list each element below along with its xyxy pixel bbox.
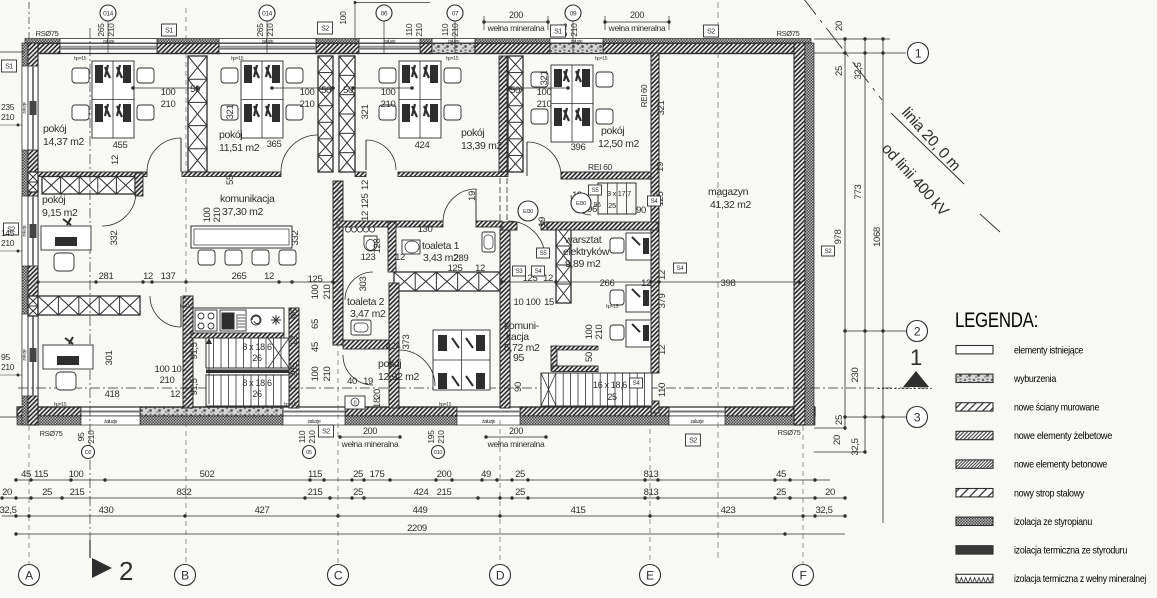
svg-text:25: 25 [607,392,617,402]
door: pokoj 12,50 [527,142,561,176]
dimension chain row 4 [16,533,845,535]
svg-text:773: 773 [853,185,864,200]
furniture: desk cluster pokoj 14,37 [72,61,154,138]
svg-text:pokój: pokój [461,127,484,139]
wall: warsztat west pillar [556,227,571,303]
svg-text:45: 45 [776,469,786,480]
svg-text:19: 19 [467,191,478,201]
furniture: desk pokoj 9,15 [41,218,91,271]
svg-text:215: 215 [70,487,85,498]
svg-text:303: 303 [358,277,369,292]
svg-text:żaluzje: żaluzje [690,419,704,425]
svg-text:D2: D2 [85,450,92,456]
svg-text:żaluzje: żaluzje [482,419,496,425]
svg-text:żaluzje: żaluzje [22,224,27,236]
door: pokoj 11,51 [281,135,318,172]
furniture: desk pokoj 12,37 [43,337,93,390]
legend row: nowe elementy żelbetowe [956,431,993,439]
svg-text:hp=15: hp=15 [54,402,67,408]
svg-text:25: 25 [515,469,525,480]
svg-text:449: 449 [413,505,428,516]
svg-text:321: 321 [656,101,667,116]
fixture: WC toaleta zone [364,236,377,251]
svg-text:25: 25 [42,487,52,498]
svg-text:210: 210 [322,285,333,300]
svg-text:418: 418 [105,389,120,400]
axis line A lower [28,426,30,564]
svg-text:18: 18 [372,398,383,408]
svg-text:210: 210 [86,430,96,444]
svg-text:210: 210 [1,112,15,122]
wall: corridor north thin wall pokoj 13,39 [355,172,366,177]
wall: stairs east wall [289,308,299,408]
svg-text:nowe elementy betonowe: nowe elementy betonowe [1014,459,1107,471]
svg-text:05: 05 [306,450,312,456]
wall: toilet/pokoj 12,92 dividing wall [394,272,500,291]
svg-text:20: 20 [372,389,383,399]
fixture: cabinet below toaleta2 [345,396,365,409]
fixture: washer symbol [251,315,261,325]
wall: double pillar east of pokoj 11,51 [318,56,333,172]
wall: corridor north thin wall left [38,172,147,177]
stairs: left staircase 8x18,6 flight 2 [206,375,289,406]
svg-text:210: 210 [106,23,116,37]
wall: bottom facade masonry [17,407,81,416]
svg-text:91,5: 91,5 [189,342,200,359]
svg-text:200: 200 [363,426,377,436]
svg-text:210: 210 [160,375,175,386]
svg-text:37,30 m2: 37,30 m2 [222,206,263,218]
svg-text:S4: S4 [535,269,543,275]
room labels [42,123,751,383]
door: to toaleta 2 [345,272,373,300]
svg-text:wełna mineralna: wełna mineralna [608,23,666,33]
svg-text:32,5: 32,5 [850,438,861,455]
svg-text:45: 45 [21,469,31,480]
svg-text:95: 95 [513,352,524,364]
svg-text:hp=15: hp=15 [439,402,452,408]
svg-text:25: 25 [834,66,845,76]
svg-text:50: 50 [190,84,200,95]
svg-text:125: 125 [308,274,323,285]
svg-text:145: 145 [1,228,15,238]
svg-text:8 x 18,6: 8 x 18,6 [242,378,272,388]
svg-text:żaluzje: żaluzje [104,419,118,425]
svg-text:9,15 m2: 9,15 m2 [42,207,78,219]
wall: small stair enclosure 3x17,7 [598,183,636,214]
svg-text:3 x 17,7: 3 x 17,7 [607,189,631,198]
svg-text:40: 40 [347,376,357,387]
svg-text:100: 100 [310,367,321,382]
dimension chain row 2 [2,497,845,499]
svg-text:żaluzje: żaluzje [307,419,321,425]
svg-text:210: 210 [307,430,317,444]
legend row: izolacja termiczna z wełny mineralnej [956,574,993,582]
wall: left facade [22,43,28,425]
svg-text:96: 96 [593,202,601,209]
legend row: wyburzenia [956,374,993,382]
section line 1-1 horizontal [18,387,930,389]
axis line E lower [649,420,651,564]
wall: pillar between pokoj 13,39 and 12,50 [499,56,507,172]
svg-text:95: 95 [1,352,10,362]
wall: toilet block west wall [333,181,343,345]
svg-text:REI 60: REI 60 [588,162,613,172]
svg-text:wyburzenia: wyburzenia [1013,373,1056,385]
svg-text:430: 430 [99,505,114,516]
svg-text:210: 210 [161,99,176,110]
svg-text:12: 12 [657,345,668,355]
svg-text:332: 332 [109,231,120,246]
svg-text:25: 25 [608,201,616,210]
grid circles bottom [19,565,40,586]
svg-text:100: 100 [537,87,552,98]
fixture: fridge snowflake symbol [271,315,281,325]
svg-text:hp=15: hp=15 [74,56,87,62]
svg-text:pokój: pokój [601,125,624,137]
svg-text:100 10: 100 10 [155,364,182,375]
svg-text:25: 25 [515,487,525,498]
svg-text:pokój: pokój [378,358,401,370]
fixture: sink right room [482,232,495,252]
top dim line for 100 [355,2,430,4]
svg-text:195: 195 [426,430,436,444]
svg-text:265: 265 [96,23,106,37]
S-boxes top [162,24,177,36]
svg-text:13,39 m2: 13,39 m2 [461,140,502,152]
axis line C interior [337,180,339,564]
svg-text:175: 175 [370,469,385,480]
svg-text:S2: S2 [825,249,833,255]
svg-text:41,32 m2: 41,32 m2 [710,199,751,211]
wall: pillar between pokoj 14,37 and 11,51 [188,56,207,172]
svg-text:26: 26 [252,389,262,399]
svg-text:nowy strop stalowy: nowy strop stalowy [1014,487,1085,499]
svg-text:90: 90 [513,382,524,392]
svg-text:014: 014 [262,10,273,17]
svg-text:2: 2 [119,556,133,586]
stairs: left staircase walk line [208,340,210,404]
svg-text:230: 230 [850,368,861,383]
svg-text:żaluzje: żaluzje [22,101,27,113]
svg-text:12: 12 [110,155,121,165]
svg-text:20: 20 [825,487,835,498]
door: pokoj 13,39 [366,140,396,170]
svg-text:15: 15 [544,297,554,308]
svg-text:wełna mineralna: wełna mineralna [487,23,545,33]
svg-text:2: 2 [914,324,921,338]
furniture: quad desk cluster pokoj 12,92 [433,330,490,390]
svg-text:pokój: pokój [43,123,66,135]
svg-text:1: 1 [910,345,922,370]
svg-text:137: 137 [161,271,176,282]
svg-text:nowe elementy żelbetowe: nowe elementy żelbetowe [1014,430,1112,442]
svg-text:25: 25 [353,469,363,480]
svg-text:281: 281 [99,271,114,282]
svg-text:F: F [800,568,807,582]
svg-text:12: 12 [264,271,274,282]
expansion joint dashed line x=718 [717,2,719,560]
S-boxes in plan [589,185,602,195]
svg-text:C: C [334,568,343,582]
svg-text:91,5: 91,5 [189,378,200,395]
svg-text:210: 210 [212,208,223,223]
svg-text:RSØ75: RSØ75 [777,29,800,38]
svg-text:1068: 1068 [872,227,883,247]
svg-text:125: 125 [448,263,463,274]
svg-text:010: 010 [434,450,442,456]
svg-text:235: 235 [1,102,15,112]
svg-text:379: 379 [657,294,668,309]
svg-text:12: 12 [657,270,668,280]
svg-text:3: 3 [914,410,921,424]
axis line D lower [499,420,501,564]
svg-text:210: 210 [1,238,15,248]
door: corridor to toaleta 1 [443,189,476,222]
svg-text:12: 12 [143,271,153,282]
svg-text:50: 50 [343,85,353,96]
svg-text:978: 978 [833,230,844,245]
svg-text:215: 215 [437,487,452,498]
svg-text:07: 07 [452,10,459,17]
svg-text:90: 90 [636,205,646,216]
svg-text:423: 423 [721,505,736,516]
door: warsztat EI30 [571,195,591,215]
svg-text:100: 100 [381,87,396,98]
svg-text:12: 12 [170,389,180,400]
wall: toaleta2 south wall [343,340,389,349]
svg-text:210: 210 [450,23,460,37]
svg-text:210: 210 [300,99,315,110]
svg-text:12: 12 [641,278,651,289]
svg-text:toaleta 2: toaleta 2 [347,296,385,308]
furniture: desk cluster pokoj 13,39 [379,61,461,138]
svg-text:110: 110 [657,383,668,397]
door: pokoj 12,92 [399,350,435,386]
svg-text:210: 210 [537,99,552,110]
svg-text:200: 200 [630,10,644,20]
svg-text:12,92 m2: 12,92 m2 [378,371,419,383]
legend row: izolacja ze styropianu [956,517,993,525]
svg-text:LEGENDA:: LEGENDA: [955,308,1038,332]
right margin dimension lines [844,39,846,430]
svg-text:EI30: EI30 [576,201,586,207]
svg-text:8 x 18,6: 8 x 18,6 [242,342,272,352]
svg-text:832: 832 [177,487,192,498]
svg-text:09: 09 [570,10,577,17]
axis A stub top [28,2,30,38]
svg-text:RSØ75: RSØ75 [36,29,59,38]
wall: toilet partition wall [388,222,396,272]
svg-text:110: 110 [404,23,414,36]
svg-text:S1: S1 [5,64,13,71]
legend row: nowe elementy betonowe [956,460,993,468]
svg-text:266: 266 [600,278,615,289]
svg-text:10 100: 10 100 [514,297,541,308]
wall: corridor north thin wall under pillar B [182,172,281,177]
legend row: izolacja termiczna ze styroduru [956,546,993,554]
svg-text:32,5: 32,5 [815,505,832,516]
svg-text:20: 20 [834,21,845,31]
svg-text:19: 19 [537,217,548,227]
wall: bottom facade insulation strip [17,416,81,425]
svg-text:32,5: 32,5 [0,505,17,516]
dim ticks in rooms [133,87,197,89]
svg-text:nowe ściany murowane: nowe ściany murowane [1014,402,1099,414]
svg-text:magazyn: magazyn [708,186,749,198]
section marker 2 [92,558,112,578]
svg-text:210: 210 [265,23,275,37]
svg-text:45: 45 [310,342,321,352]
svg-text:S4: S4 [651,199,659,205]
svg-text:9,89 m2: 9,89 m2 [565,258,601,270]
furniture: conference table komunikacja [191,226,292,248]
svg-text:RSØ75: RSØ75 [778,428,801,437]
svg-text:95: 95 [76,432,86,441]
svg-text:S2: S2 [707,29,715,36]
svg-text:16 x 18,6: 16 x 18,6 [593,380,627,390]
in-plan dimension labels [99,71,736,408]
svg-text:pokój: pokój [42,194,65,206]
furniture: desk cluster pokoj 11,51 [221,61,303,138]
fixture: hook row toaleta zone [345,227,350,232]
stairs: left staircase landing divider [206,370,289,374]
svg-text:398: 398 [721,278,736,289]
svg-text:hp=15: hp=15 [284,402,297,408]
svg-text:S2: S2 [689,438,697,445]
dimension chain row 3 [2,515,845,517]
svg-text:12: 12 [289,336,300,346]
svg-text:332: 332 [290,231,301,246]
svg-text:hp=15: hp=15 [606,304,619,310]
wall: top facade masonry piers [25,43,60,53]
svg-text:wełna mineralna: wełna mineralna [487,439,545,449]
svg-text:1: 1 [915,46,922,60]
svg-text:D: D [496,568,505,582]
grid circles right [908,43,929,64]
svg-text:455: 455 [113,140,128,151]
svg-text:E: E [646,568,654,582]
svg-text:S1: S1 [554,29,562,36]
wall: top facade insulation strip [25,39,60,44]
svg-text:pokój: pokój [219,129,242,141]
svg-text:49: 49 [481,469,491,480]
svg-text:S2: S2 [322,429,330,436]
svg-text:S4: S4 [677,266,685,272]
svg-text:25: 25 [353,487,363,498]
svg-text:396: 396 [571,142,586,153]
svg-text:B: B [181,568,189,582]
svg-text:2209: 2209 [407,523,427,534]
furniture: desk cluster pokoj 12,50 [531,65,613,142]
svg-text:06: 06 [381,10,388,17]
section line 2-2 vertical [89,28,91,556]
svg-text:50: 50 [510,85,520,96]
svg-text:210: 210 [322,367,333,382]
svg-text:14,37 m2: 14,37 m2 [43,136,84,148]
legend row: nowe ściany murowane [956,403,993,411]
wall: corridor wall below pokoj 12,50 REI60 [561,172,651,179]
svg-text:elementy istniejące: elementy istniejące [1014,344,1083,356]
door: toaleta 2 lower [343,355,373,385]
wall: pokoj 9,15 top X wall [42,177,135,195]
svg-text:96: 96 [289,309,300,319]
svg-text:hp=15: hp=15 [446,56,459,62]
svg-text:26: 26 [252,353,262,363]
svg-text:128: 128 [372,239,383,254]
wall: magazyn west wall [651,53,659,373]
dimension chain row 1 [16,479,830,481]
svg-text:100: 100 [161,87,176,98]
wall: corridor north wall at EI30 door [502,222,517,230]
svg-text:215: 215 [308,487,323,498]
power line offset diagonal [800,0,882,100]
svg-text:427: 427 [255,505,270,516]
svg-text:65: 65 [310,319,321,329]
wall: komunikacja 5,72 south piece [551,346,557,371]
svg-text:12,50 m2: 12,50 m2 [598,138,639,150]
svg-text:502: 502 [200,469,215,480]
svg-text:12: 12 [475,263,485,274]
svg-text:izolacja termiczna z wełny min: izolacja termiczna z wełny mineralnej [1014,573,1146,585]
stairs: left staircase 8x18,6 flight 1 [206,338,289,368]
svg-text:424: 424 [386,341,401,352]
svg-text:REI 60: REI 60 [640,84,649,107]
fixture: sink toaleta 2 [351,320,371,335]
svg-text:toaleta 1: toaleta 1 [422,240,460,252]
svg-text:3,47 m2: 3,47 m2 [350,308,386,320]
svg-text:265: 265 [232,271,247,282]
window: bottom facade windows [81,407,140,416]
wall: komunikacja 5,72 west wall [500,227,510,408]
fixture: kitchen sink [220,310,246,331]
svg-text:100: 100 [338,11,348,25]
svg-text:A: A [25,568,33,582]
svg-text:żaluzje: żaluzje [22,348,27,360]
svg-text:130: 130 [418,224,433,235]
wall: pokoj 12,37 north wall [38,296,140,315]
svg-text:izolacja termiczna ze styrodur: izolacja termiczna ze styroduru [1014,545,1127,557]
svg-text:200: 200 [509,426,523,436]
svg-text:warsztat: warsztat [564,234,602,246]
window: top facade windows with zaluzje blinds [60,39,157,44]
axis line F lower [802,426,804,564]
svg-text:12: 12 [360,211,371,221]
stairs: right staircase 16x18,6 [541,373,652,406]
wall: toilet top wall [337,221,443,227]
svg-text:12: 12 [395,252,405,263]
svg-text:210: 210 [594,325,605,340]
fixture: stove with 4 burners [195,310,217,331]
svg-text:elektryków: elektryków [563,246,610,258]
svg-text:50: 50 [321,85,331,96]
wall: kitchen west wall [183,296,193,408]
axis line B interior [185,8,187,564]
wall: toaleta2 east / pokoj 12,92 west wall [389,283,399,408]
svg-text:11,51 m2: 11,51 m2 [219,142,260,154]
svg-text:813: 813 [644,469,659,480]
svg-text:265: 265 [255,23,265,37]
door: komunikacja 5,72 [508,221,545,258]
svg-text:415: 415 [571,505,586,516]
EI30 door rating circles [518,201,538,221]
svg-text:25: 25 [834,415,845,425]
svg-text:210: 210 [381,99,396,110]
svg-text:12: 12 [360,180,371,190]
svg-text:S3: S3 [516,269,524,275]
svg-text:321: 321 [539,71,550,86]
door/window tag circles top [107,21,109,53]
